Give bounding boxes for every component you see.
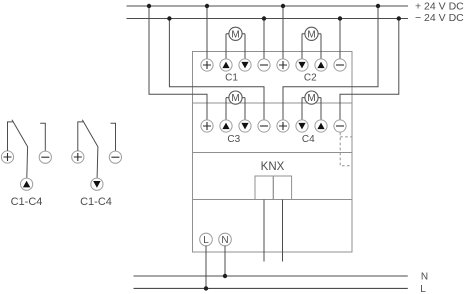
svg-text:KNX: KNX bbox=[261, 161, 285, 173]
terminal L bbox=[200, 233, 213, 246]
terminal C3 minus bbox=[258, 120, 270, 132]
switch 2 down terminal bbox=[91, 178, 103, 190]
KNX bus wire 1 bbox=[263, 200, 265, 262]
terminal C4 plus bbox=[277, 120, 289, 132]
junction dot N bbox=[223, 274, 227, 278]
wire C2 minus bbox=[339, 19, 341, 60]
terminal C3 up bbox=[220, 120, 232, 132]
terminal C1 down bbox=[239, 59, 251, 71]
divider 2 bbox=[193, 152, 353, 154]
junction dots rail1 bbox=[147, 4, 380, 8]
motor M4 bbox=[302, 91, 321, 120]
switch 2 lever bbox=[82, 120, 98, 178]
terminal C2 up bbox=[315, 59, 327, 71]
switch 1 lever bbox=[12, 120, 28, 178]
wire N bbox=[224, 246, 226, 276]
terminal C3 plus bbox=[201, 120, 213, 132]
terminal C3 down bbox=[239, 120, 251, 132]
motor M1 bbox=[226, 27, 245, 59]
wire C1 minus bbox=[263, 19, 265, 60]
-24V rail bbox=[127, 18, 409, 20]
switch 1 pole wire bbox=[8, 122, 13, 151]
switch 1 plus terminal bbox=[1, 151, 13, 163]
svg-text:C4: C4 bbox=[302, 134, 315, 145]
svg-text:M: M bbox=[307, 29, 315, 40]
device box outline bbox=[193, 52, 353, 253]
junction dot L bbox=[204, 286, 208, 290]
svg-text:L: L bbox=[203, 235, 209, 246]
terminal N bbox=[219, 233, 232, 246]
dashed option wire bbox=[340, 133, 351, 166]
svg-text:C3: C3 bbox=[227, 134, 240, 145]
KNX bus wire 2 bbox=[282, 200, 284, 262]
wire C4 minus bbox=[340, 19, 399, 121]
+24V rail bbox=[127, 5, 409, 7]
svg-text:− 24 V DC: − 24 V DC bbox=[415, 12, 464, 24]
switch 2 minus terminal bbox=[109, 151, 121, 163]
wire C4 plus bbox=[283, 6, 378, 120]
switch 1 up terminal bbox=[21, 178, 33, 190]
terminal C2 minus bbox=[334, 59, 346, 71]
terminal C4 up bbox=[315, 120, 327, 132]
switch 2 pole wire bbox=[78, 122, 83, 151]
terminal C4 down bbox=[296, 120, 308, 132]
wire C3 minus bbox=[169, 19, 264, 121]
terminal C4 minus bbox=[334, 120, 346, 132]
switch 1 minus contact wire bbox=[40, 123, 45, 151]
terminal C1 up bbox=[220, 59, 232, 71]
terminal C2 plus bbox=[277, 59, 289, 71]
switch 1 minus terminal bbox=[39, 151, 51, 163]
terminal C2 down bbox=[296, 59, 308, 71]
svg-text:N: N bbox=[221, 235, 228, 246]
svg-text:N: N bbox=[421, 272, 428, 283]
svg-text:M: M bbox=[231, 29, 239, 40]
svg-text:+ 24 V DC: + 24 V DC bbox=[415, 1, 464, 13]
N line bbox=[134, 275, 408, 277]
wire C3 plus bbox=[149, 6, 207, 120]
motor M2 bbox=[302, 27, 321, 59]
svg-text:C1-C4: C1-C4 bbox=[11, 196, 43, 208]
motor M3 bbox=[226, 91, 245, 120]
KNX connector bbox=[255, 176, 292, 200]
wire C1 plus bbox=[206, 6, 208, 59]
svg-text:M: M bbox=[231, 93, 239, 104]
svg-text:C1: C1 bbox=[225, 73, 238, 84]
divider 3 bbox=[193, 199, 353, 201]
terminal C1 plus bbox=[201, 59, 213, 71]
junction dots rail2 bbox=[167, 16, 401, 20]
switch 2 minus contact wire bbox=[111, 123, 116, 151]
wire L bbox=[205, 246, 207, 289]
svg-text:M: M bbox=[307, 93, 315, 104]
divider 1 bbox=[193, 102, 353, 104]
svg-text:C1-C4: C1-C4 bbox=[80, 196, 112, 208]
svg-text:L: L bbox=[420, 284, 426, 294]
L line bbox=[134, 287, 408, 289]
switch 2 plus terminal bbox=[72, 151, 84, 163]
terminal C1 minus bbox=[258, 59, 270, 71]
wire C2 plus bbox=[282, 6, 284, 59]
svg-text:C2: C2 bbox=[304, 73, 317, 84]
